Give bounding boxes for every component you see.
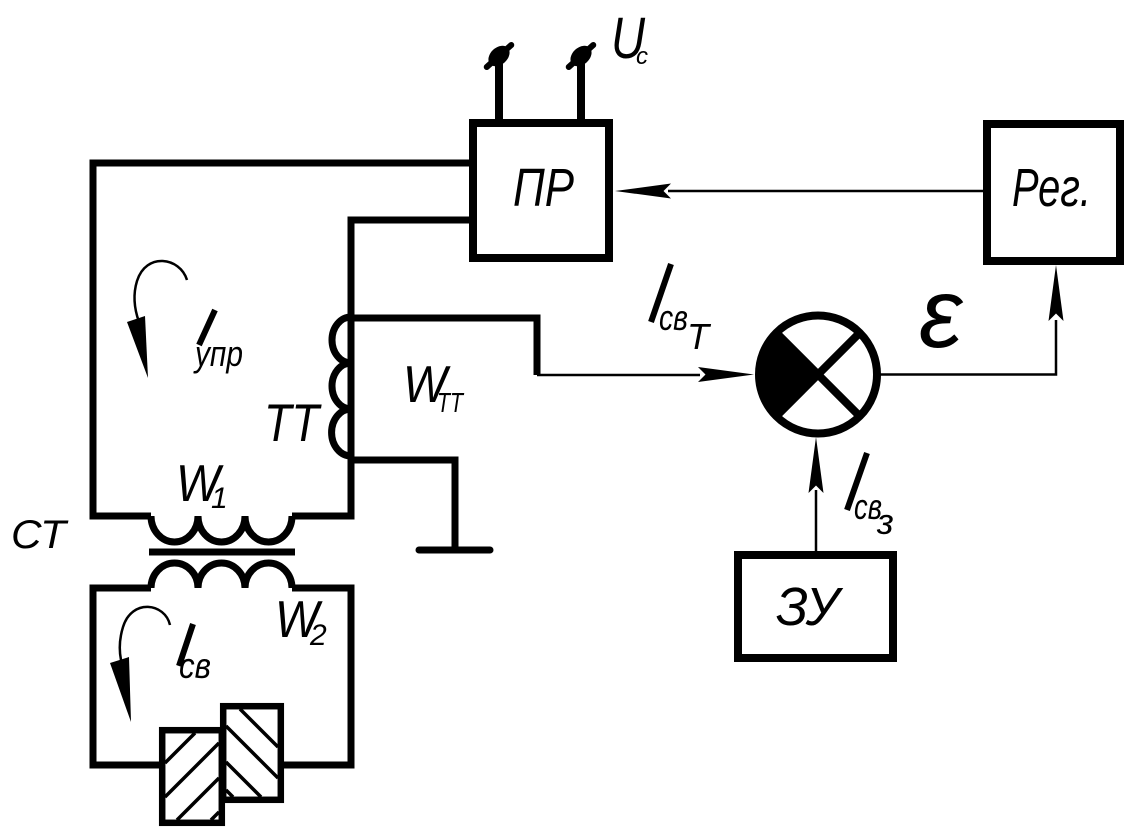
label I_св [179,624,193,666]
svg-text:Рег.: Рег. [1012,158,1091,218]
pin 2 of ПР (mains input) [577,61,585,122]
mixer / comparator circle [759,316,877,434]
wire: coil bottom tap to ground [351,460,455,547]
box ПР [473,123,609,258]
workpiece electrode left (hatched) [162,730,222,823]
ground [419,547,490,554]
wire: coil top tap to corner [351,318,537,375]
core of transformer СТ [149,549,295,556]
svg-text:ЗУ: ЗУ [776,577,843,637]
label I_св_Т [651,264,671,322]
winding W1 (primary of CT) [151,516,292,542]
wire: control loop (left big loop to ПР) [93,163,469,516]
wire: coil tap to mixer [537,374,700,377]
svg-text:ТТ: ТТ [437,387,464,418]
svg-text:1: 1 [211,482,228,515]
wire: Рег to ПР [668,190,983,193]
box ЗУ [738,555,893,658]
svg-text:с: с [636,43,648,70]
curved arrow I_упр [135,261,187,322]
mixer X line 1 [777,333,860,416]
svg-text:упр: упр [193,333,243,374]
mixer filled left sector [759,333,818,416]
svg-text:ПР: ПР [513,158,574,218]
svg-text:Т: Т [687,316,712,357]
arrowhead into ПР [615,184,671,199]
svg-text:з: з [876,501,894,542]
svg-text:ε: ε [919,258,964,368]
pin 1 of ПР (mains input) [495,61,503,122]
label I_св_з [847,453,867,510]
svg-text:ТТ: ТТ [264,394,322,453]
wire: W1 to TT primary vertical up to ПР [292,220,469,516]
arrowhead into mixer from below [809,437,824,493]
wire: ЗУ to mixer [815,490,818,551]
curved arrow I_св [120,607,170,660]
svg-text:2: 2 [309,619,327,652]
arrowhead into Рег [1049,265,1064,321]
box Рег [987,124,1120,261]
workpiece electrode right (hatched) [223,706,281,800]
mixer X line 2 [777,333,860,416]
label I_упр [199,310,215,345]
svg-text:СТ: СТ [11,513,69,557]
winding W2 (secondary of CT) [151,563,292,588]
wire: mixer to Рег [877,320,1056,375]
coil W_TT (secondary of current transformer TT) [332,317,351,456]
wire: welding loop (lower loop) [93,588,351,765]
arrowhead into mixer [698,367,754,382]
svg-text:св: св [179,645,211,686]
svg-text:св: св [659,297,688,338]
